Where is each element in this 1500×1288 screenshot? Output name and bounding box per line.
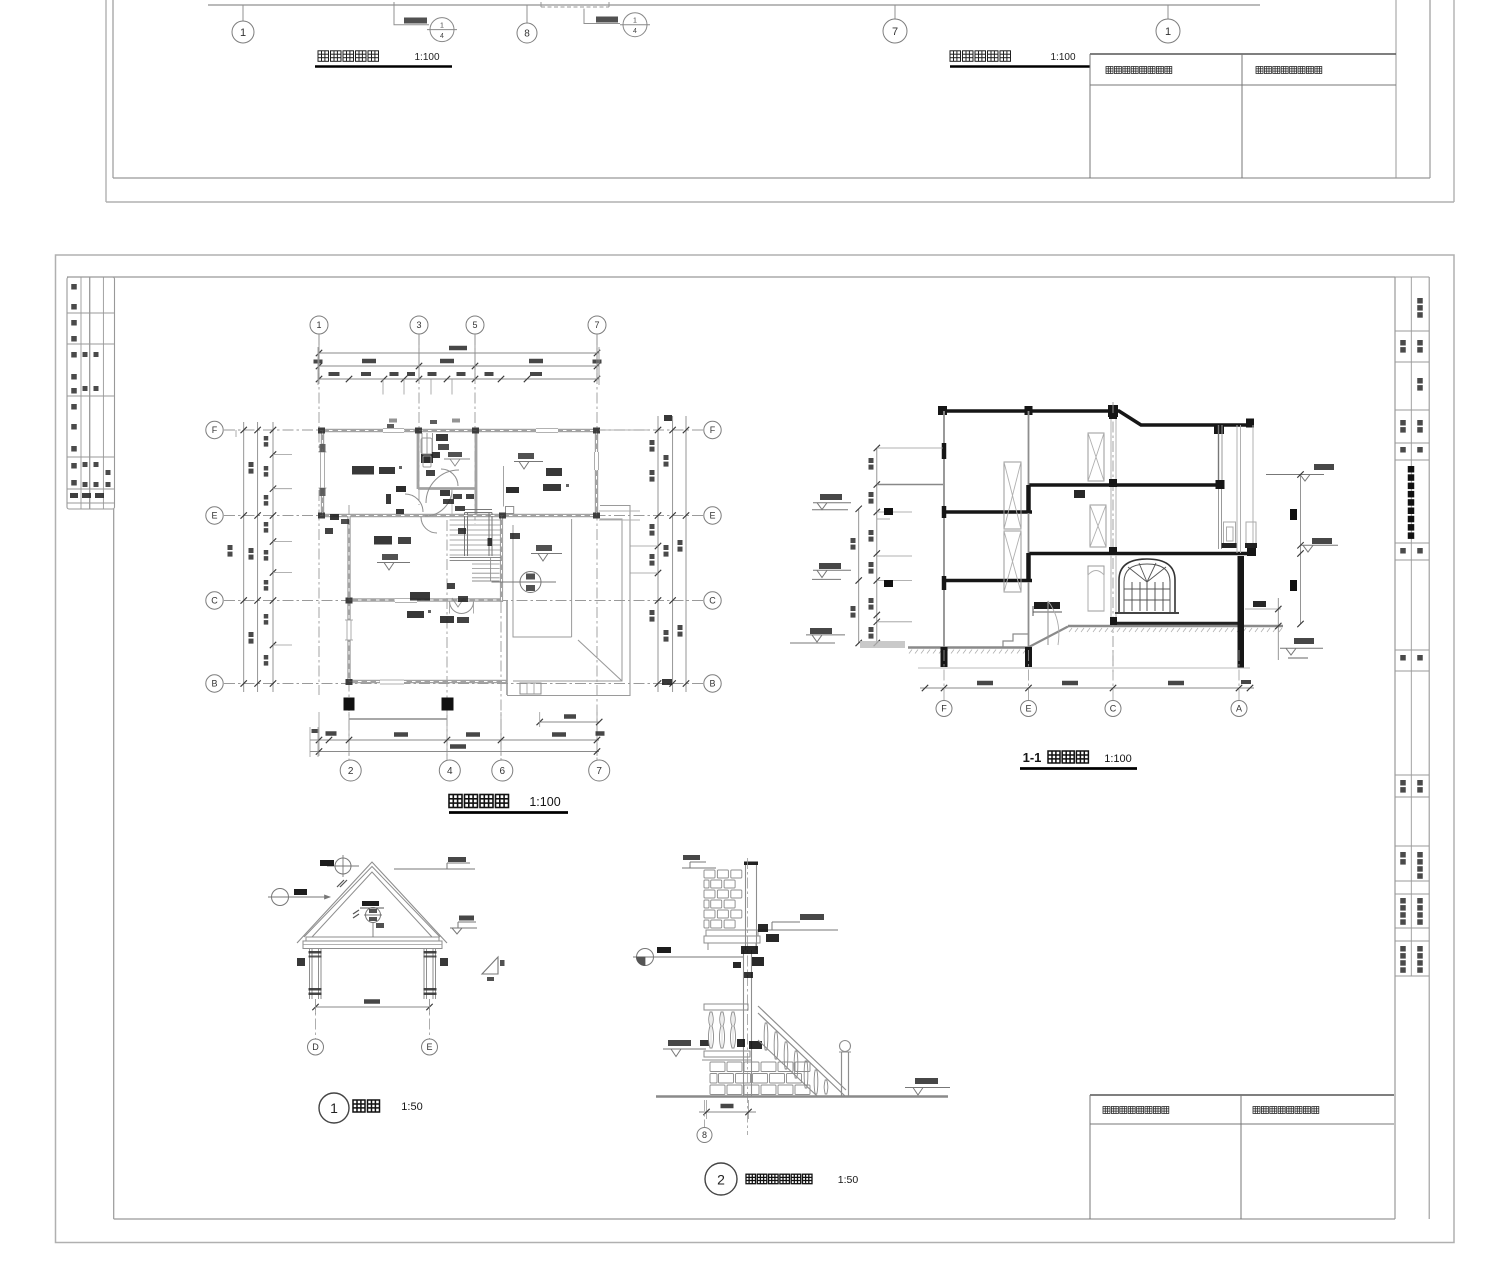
sheet2 inner border bottom (114, 1218, 1395, 1220)
plan grid circle E right (704, 507, 721, 524)
gable callout tick (337, 880, 344, 887)
svg-text:F: F (710, 425, 716, 435)
plan small texts above F (389, 419, 397, 423)
plan grid line F (224, 429, 703, 431)
section ground hatch left (909, 650, 912, 654)
right strip divider (1410, 277, 1412, 976)
plan grid circle 7 bottom (589, 760, 610, 781)
right strip row lines (1395, 330, 1429, 332)
section arched window muntins vertical (1131, 582, 1133, 611)
sheet1 left drawing title (318, 51, 329, 62)
sheet1 outer border bottom (106, 201, 1454, 203)
section wall F footing (941, 647, 948, 667)
svg-text:4: 4 (440, 33, 444, 40)
plan right dim chain 1 (657, 416, 659, 692)
bottom title block header text right (1253, 1107, 1260, 1114)
plan window label blob above E (506, 487, 519, 493)
section right wall blob at floor3 (1216, 480, 1225, 489)
section roof end blob F (938, 406, 947, 415)
gable callout left text (294, 889, 307, 895)
gable side text left (297, 958, 305, 966)
gable top-right level flag (394, 868, 475, 870)
section balcony window frame 2 (1246, 522, 1256, 546)
railing right leader flag (758, 929, 838, 931)
plan stair rail blob (488, 538, 493, 546)
window gap F wall a (383, 427, 404, 435)
section right level flag top (1314, 464, 1334, 470)
section wall F black lintel 2F (942, 576, 947, 590)
svg-text:1:100: 1:100 (414, 52, 439, 63)
svg-text:C: C (709, 596, 716, 606)
svg-text:E: E (426, 1042, 432, 1052)
plan stair well rail U (464, 513, 466, 557)
plan left dim texts chain3 (264, 436, 269, 441)
sheet1 right drawing title (950, 51, 961, 62)
plan wall corner blob F7 (593, 428, 600, 434)
plan title underline (449, 811, 568, 814)
wall corner blobs repaint over texture (318, 428, 325, 434)
svg-text:1:50: 1:50 (401, 1101, 422, 1113)
plan door arc bedroom1 (405, 494, 423, 512)
sheet1 outer border left (105, 0, 107, 202)
plan stair bottom edge (472, 580, 500, 582)
gable column right base marks (424, 988, 437, 991)
left strip bottom row texts (70, 493, 78, 498)
sheet1 outer border right (1453, 0, 1455, 202)
gable pediment callout circle (366, 908, 381, 923)
section level flag 1.800 (819, 563, 841, 569)
plan label blobs below C door (440, 616, 454, 623)
plan grid circle C left (206, 592, 223, 609)
svg-text:1:100: 1:100 (529, 795, 560, 809)
railing mid joint marks (737, 1039, 745, 1047)
section roof end blob right (1246, 419, 1254, 428)
section grid circle F (936, 701, 952, 717)
section right dim texts (1290, 509, 1297, 520)
railing sloped top rail (758, 1006, 846, 1090)
window gap B wall (380, 678, 404, 686)
bottom title block header text left (1103, 1107, 1110, 1114)
left strip row lines (67, 312, 115, 314)
svg-text:B: B (709, 679, 715, 689)
plan wall E (318, 514, 599, 517)
left strip column lines (80, 277, 82, 509)
gable column left (309, 949, 311, 1000)
railing right level flag (915, 1078, 938, 1084)
section ground slab interior (1113, 622, 1244, 625)
svg-text:1: 1 (240, 27, 246, 39)
gable base band top (306, 937, 439, 941)
sheet1 detail callout circle A (430, 18, 454, 42)
plan grid circle 3 top (410, 316, 428, 334)
section text 1B (1074, 490, 1085, 498)
window gap left wall 2 (345, 620, 353, 640)
plan misc text hall center (458, 528, 466, 534)
section level flag -5.100 (810, 628, 832, 634)
gable callout left circle (272, 889, 289, 906)
plan terrace door box at B (520, 683, 541, 694)
section left dim texts inner (869, 458, 874, 463)
plan partition wall small room left (417, 432, 420, 489)
railing callout leader (653, 956, 743, 958)
plan big door arc closet to hall (426, 470, 459, 503)
plan grid circle 5 top (466, 316, 484, 334)
sheet1 detail leader A (394, 2, 429, 25)
railing newel ball (840, 1041, 851, 1052)
plan right dim chain 3 (685, 416, 687, 692)
section arched window outer frame (1119, 559, 1175, 613)
plan column blob below B grid2 (344, 698, 355, 711)
railing top brick panel (704, 870, 715, 878)
plan blob bedroom vertical (386, 494, 391, 504)
plan wall B (347, 680, 507, 683)
section arched window inner frame (1124, 564, 1170, 613)
plan partition wall 5 (F-E) (475, 432, 478, 514)
plan wall right 7 (F-E) (595, 429, 598, 517)
gable column centerlines (315, 999, 317, 1039)
plan left dim chain 3 (272, 422, 274, 692)
plan wall corner blob E1 (318, 513, 325, 519)
sheet1 elevation ground line (208, 4, 1260, 6)
svg-text:8: 8 (524, 29, 530, 40)
plan right dim stubs (630, 545, 658, 547)
section wall C blob roofjct (1109, 413, 1117, 419)
wall texture white dashes (320, 430, 599, 432)
plan porch edge line (349, 718, 447, 720)
section stair window 3F a (1004, 462, 1021, 529)
svg-text:F: F (212, 425, 218, 435)
room label living 21.2sqm (410, 592, 430, 601)
sheet1 grid leader 7 (894, 5, 896, 19)
plan grid line E (224, 515, 703, 517)
section wall C pair (1110, 413, 1112, 621)
section grid line C dashdot (1112, 402, 1114, 672)
plan grid circle F left (206, 421, 223, 438)
plan closet lines (421, 433, 423, 454)
svg-text:1: 1 (316, 320, 321, 330)
plan terrace outer rectangle (507, 506, 630, 696)
section stair note text (1034, 602, 1060, 609)
sheet2 inner border top (67, 276, 1395, 278)
svg-text:1:100: 1:100 (1104, 753, 1132, 765)
section column E footing (1025, 647, 1032, 667)
plan left dim total text (228, 545, 233, 550)
plan right dim chain 2 (672, 416, 674, 692)
svg-text:3: 3 (416, 320, 421, 330)
svg-text:7: 7 (594, 320, 599, 330)
section floor3 slab right (1028, 483, 1221, 487)
railing top post (745, 864, 747, 950)
svg-text:B: B (211, 679, 217, 689)
section left dim stub lines (877, 447, 943, 449)
plan wall left 2 (E-B) (347, 514, 350, 683)
detail 2 big circle (705, 1163, 737, 1195)
plan title text (449, 795, 462, 808)
section balcony window frame 1 (1224, 522, 1236, 546)
section balcony sills (1222, 543, 1237, 548)
plan grid circle B right (704, 675, 721, 692)
svg-text:8: 8 (702, 1130, 707, 1140)
railing ground line (656, 1095, 948, 1098)
room label study 12sqm (374, 536, 392, 545)
room label bedroom1 14.3sqm (352, 466, 374, 475)
svg-text:1-1: 1-1 (1023, 750, 1042, 765)
plan detail callout circle near hall (520, 572, 541, 593)
gable triangle outer (297, 862, 447, 943)
plan grid line 6 (500, 524, 502, 761)
sheet1 title block header text right (1256, 67, 1263, 74)
svg-text:D: D (312, 1042, 319, 1052)
gable triangle inner (312, 872, 432, 937)
svg-text:E: E (709, 511, 715, 521)
plan right dim B text (662, 679, 672, 685)
level symbol study (382, 554, 398, 560)
plan bottom dim left stub (309, 727, 311, 757)
section door 1F corridor (1088, 566, 1104, 611)
svg-text:A: A (1236, 704, 1242, 714)
gable base band bottom (303, 941, 442, 949)
level symbol hall (536, 545, 552, 551)
sheet2 right title strip frame (1395, 276, 1429, 278)
section right flag bottom hatchline (1288, 657, 1308, 659)
section arched window sill (1115, 612, 1179, 614)
plan left dim stubs (273, 454, 292, 456)
railing top level flag (682, 867, 716, 869)
plan wall corner blob F1 (318, 428, 325, 434)
plan wall corner blob F5 (472, 428, 479, 434)
plan double door arcs at C wall (450, 602, 462, 614)
gable column left cap marks (309, 951, 322, 954)
plan left dim chain 2 (257, 422, 259, 692)
railing center post (743, 950, 745, 1096)
section grid circle E (1021, 701, 1037, 717)
section wall C blob f3 (1109, 479, 1117, 487)
section right wall below-roof pair (1218, 425, 1220, 487)
plan grid circle 4 bottom (439, 760, 460, 781)
section arched window radials (1128, 567, 1147, 582)
svg-text:E: E (1025, 704, 1031, 714)
svg-text:C: C (211, 596, 218, 606)
railing callout text (657, 947, 671, 953)
sheet1 left title underline (315, 65, 452, 68)
railing left cap band (704, 1051, 750, 1057)
gable dim line (316, 1006, 430, 1008)
section right level flag bottom (1294, 638, 1314, 644)
plan stair treads lower (472, 563, 500, 565)
window gap right wall 7 (593, 452, 601, 470)
svg-text:1:50: 1:50 (838, 1174, 859, 1186)
plan stair treads upper (450, 519, 501, 521)
sheet2 left title strip frame (67, 277, 115, 509)
plan right dim top text (664, 415, 672, 421)
railing grid circle 8 (704, 1100, 706, 1127)
section right level flag mid (1312, 538, 1332, 544)
gable pediment drop line (372, 923, 374, 938)
plan door arc bath (441, 469, 458, 486)
sheet1 detail leader B (584, 9, 620, 24)
sheet1 detail callout circle B (623, 13, 647, 37)
plan right dim texts (650, 440, 655, 445)
sheet1 title block header text left (1106, 67, 1113, 74)
svg-text:C: C (1110, 704, 1117, 714)
plan blob at E near grid3 (396, 509, 404, 514)
plan wall terrace left (C-B) (506, 600, 508, 695)
sheet1 inner border right (1429, 0, 1431, 178)
section right parapet pair below floor3 (1218, 489, 1220, 549)
plan closet blob (421, 454, 433, 463)
railing callout circle (637, 949, 654, 966)
plan top grid stems solid (318, 334, 320, 380)
section arched window muntins horizontal (1124, 588, 1170, 590)
left strip cell texts (71, 284, 77, 290)
plan misc text at E left (330, 514, 339, 520)
plan terrace inner edge (513, 519, 622, 681)
section column E black seg2 (1026, 553, 1031, 582)
plan grid circle B left (206, 675, 223, 692)
plan window text F wall (387, 424, 394, 428)
plan wall corner blob B2 (346, 679, 353, 685)
plan left dim texts chain2 (249, 462, 254, 467)
plan grid line 7 (596, 334, 598, 761)
plan corridor door label blobs (440, 490, 450, 496)
section title underline (1020, 767, 1137, 770)
section column A below floor2 (1238, 556, 1245, 668)
section column E black seg1 (1026, 485, 1031, 513)
section door 2F corridor (1090, 505, 1106, 547)
svg-text:7: 7 (596, 766, 602, 777)
plan roof below inner rectangle (513, 525, 572, 637)
right strip small texts (1417, 298, 1423, 304)
plan wall corner blob C2 (346, 598, 353, 604)
sheet1 grid leader 1b (1167, 5, 1169, 19)
section foundation grey band (860, 641, 905, 648)
railing left balustrade top band (704, 1004, 748, 1010)
gable column right (423, 949, 425, 1000)
svg-text:5: 5 (472, 320, 477, 330)
plan wall 6 (E-C) (500, 514, 503, 602)
level symbol bedroom2 (518, 453, 534, 459)
section level flag +3.00 (820, 494, 842, 500)
railing centerline dashdot (747, 858, 749, 1135)
plan grid circle 7 top (588, 316, 606, 334)
svg-text:6: 6 (500, 766, 506, 777)
svg-text:7: 7 (892, 26, 898, 38)
gable grid circle E (422, 1039, 438, 1055)
section left dim black labels (884, 508, 893, 515)
window gap left wall 1 (319, 452, 327, 488)
window jambs left wall 1 (320, 444, 326, 452)
room label closet (436, 434, 448, 441)
svg-text:1: 1 (330, 1100, 338, 1116)
plan top dim row 1 (total) (318, 352, 599, 354)
railing right black marks (758, 924, 768, 932)
svg-text:1:100: 1:100 (1050, 52, 1075, 63)
gable column left base marks (309, 988, 322, 991)
sheet1 grid circle 8 (517, 23, 537, 43)
plan grid line B (224, 683, 703, 685)
svg-text:2: 2 (348, 766, 354, 777)
sheet1 grid leader 1 (242, 5, 244, 21)
svg-text:F: F (941, 704, 947, 714)
plan grid circle 2 bottom (340, 760, 361, 781)
railing sloped balusters (764, 1023, 768, 1050)
svg-text:E: E (211, 511, 217, 521)
section ground hatch right (1069, 628, 1072, 632)
section right dim chain (1300, 475, 1302, 625)
plan column blob below B grid4 (442, 698, 454, 711)
railing bottom dim (706, 1100, 708, 1119)
section stair window 2F a (1004, 531, 1021, 592)
gable callout left leader (291, 896, 330, 898)
section ground line left (908, 646, 1028, 648)
plan grid circle 1 top (310, 316, 328, 334)
section wall F black lintel 3F (942, 443, 947, 459)
plan grid line 3 (418, 334, 420, 505)
detail 2 label text (746, 1174, 756, 1184)
plan bath fixtures (421, 438, 432, 454)
section right small chain (1277, 598, 1279, 660)
section interior door arc 1F (1047, 601, 1049, 645)
sheet1 grid circle 1 (232, 21, 254, 43)
plan stair landing edge (450, 557, 501, 559)
gable slope triangle symbol (482, 957, 498, 974)
svg-text:1: 1 (440, 23, 444, 30)
plan misc text near stair top (432, 452, 440, 458)
plan bottom small dim terrace (540, 721, 600, 723)
section floor2 slab left (943, 579, 1032, 583)
plan grid circle F right (704, 421, 721, 438)
plan wall left 1 (F-E) (321, 429, 324, 517)
plan grid circle C right (704, 592, 721, 609)
gable right level flag (450, 927, 477, 929)
svg-text:4: 4 (633, 28, 637, 35)
plan wall F (318, 429, 599, 432)
gable column right cap marks (424, 951, 437, 954)
section entry steps (1003, 634, 1028, 647)
section right outer lines (1236, 425, 1238, 553)
sheet1 inner border bottom (113, 177, 1430, 179)
plan terrace E extension lines (599, 510, 640, 512)
section door 3F corridor (1088, 433, 1104, 481)
sheet1 grid leader 8 (526, 5, 528, 23)
plan grid line 2 (348, 505, 350, 761)
plan grid circle 6 bottom (492, 760, 513, 781)
right strip drawing title text (bold) (1408, 466, 1415, 473)
plan wall corner blob E6 (499, 513, 506, 519)
gable side text right (440, 958, 448, 966)
svg-text:1: 1 (633, 18, 637, 25)
section column E (1028, 411, 1030, 647)
plan grid line C (224, 600, 703, 602)
railing left balusters (709, 1012, 714, 1048)
plan flue box at E (506, 507, 514, 514)
gable triangle mid (304, 867, 440, 938)
section wall F black sill (942, 506, 947, 518)
section roof slab (941, 411, 1253, 425)
sheet1 grid circle 7 (883, 19, 907, 43)
plan grid line 5 (474, 334, 476, 524)
plan wall C (347, 598, 502, 601)
section ground line right (1068, 625, 1283, 627)
plan wall corner blob F3 (415, 428, 422, 434)
window gap F wall b (536, 427, 558, 435)
gable pediment arrow mark (353, 910, 359, 914)
plan left dim chain 1 (243, 422, 245, 692)
detail 1 big circle (319, 1093, 349, 1123)
sheet2 outer border (56, 255, 1455, 1243)
svg-text:2: 2 (717, 1172, 725, 1188)
section roof blob E (1025, 406, 1033, 415)
